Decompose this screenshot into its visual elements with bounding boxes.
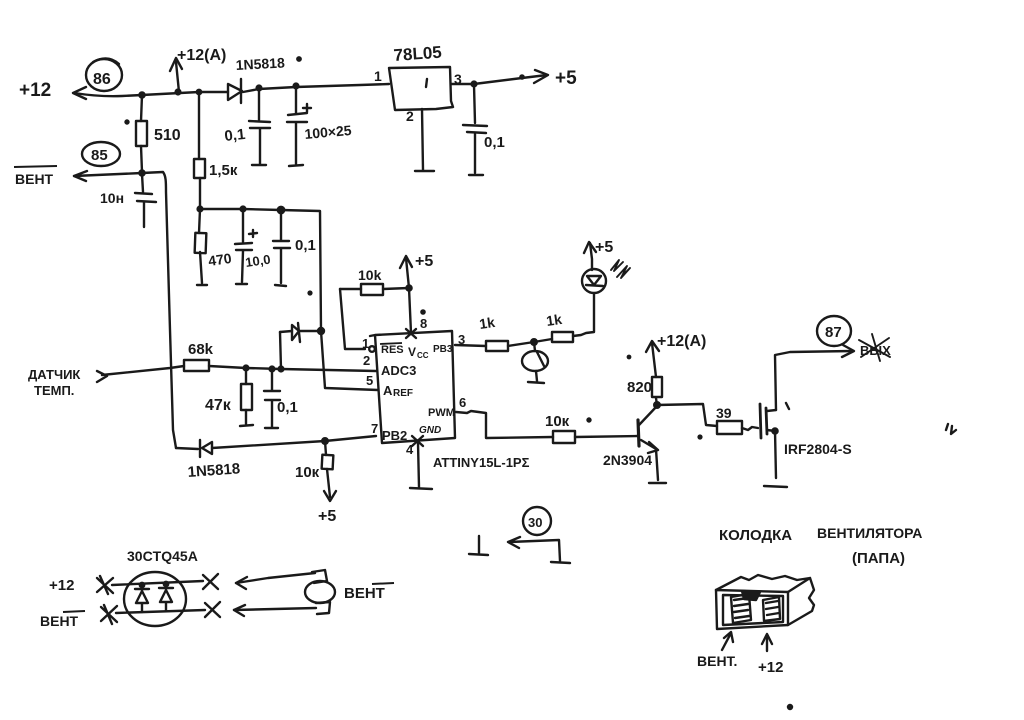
svg-text:+12(A): +12(A) [657, 333, 706, 350]
svg-text:87: 87 [825, 324, 842, 341]
svg-text:ВЕНТ: ВЕНТ [40, 613, 79, 629]
svg-text:1: 1 [362, 336, 369, 351]
svg-text:1,5к: 1,5к [209, 162, 238, 179]
svg-text:+12: +12 [49, 577, 74, 594]
svg-text:3: 3 [454, 71, 462, 87]
svg-text:2N3904: 2N3904 [603, 452, 652, 468]
svg-text:2: 2 [363, 353, 370, 368]
svg-text:6: 6 [459, 395, 466, 410]
svg-text:10н: 10н [100, 190, 124, 206]
svg-text:ВЫХ: ВЫХ [860, 343, 891, 358]
svg-text:470: 470 [207, 250, 233, 269]
svg-text:ADC3: ADC3 [381, 363, 416, 378]
svg-text:10к: 10к [545, 413, 570, 430]
svg-text:0,1: 0,1 [224, 126, 247, 145]
svg-text:4: 4 [406, 442, 414, 457]
svg-text:GND: GND [419, 425, 441, 436]
svg-text:ВЕНТИЛЯТОРА: ВЕНТИЛЯТОРА [817, 525, 922, 541]
svg-text:PWM: PWM [428, 407, 455, 419]
svg-text:+12(A): +12(A) [177, 47, 226, 64]
svg-text:ВЕНТ: ВЕНТ [344, 585, 385, 602]
svg-text:1N5818: 1N5818 [235, 54, 285, 73]
svg-text:78L05: 78L05 [393, 43, 442, 65]
svg-text:510: 510 [154, 127, 181, 144]
svg-text:7: 7 [371, 421, 378, 436]
svg-text:PB2: PB2 [382, 428, 407, 443]
svg-text:КОЛОДКА: КОЛОДКА [719, 527, 792, 544]
svg-text:47к: 47к [205, 397, 232, 414]
svg-text:3: 3 [458, 332, 465, 347]
svg-text:8: 8 [420, 316, 427, 331]
svg-text:+5: +5 [595, 239, 613, 256]
svg-text:(ПАПА): (ПАПА) [852, 550, 905, 567]
svg-text:CC: CC [417, 351, 429, 360]
svg-text:5: 5 [366, 373, 373, 388]
svg-text:+5: +5 [415, 253, 433, 270]
svg-text:ВЕНТ: ВЕНТ [15, 171, 54, 187]
svg-text:REF: REF [393, 388, 413, 399]
svg-text:10,0: 10,0 [244, 252, 271, 270]
svg-text:0,1: 0,1 [277, 399, 298, 416]
svg-text:10к: 10к [295, 464, 320, 481]
svg-text:ATTINY15L-1PΣ: ATTINY15L-1PΣ [433, 455, 530, 470]
svg-text:68k: 68k [188, 341, 214, 358]
svg-text:1k: 1k [545, 311, 563, 329]
svg-text:+12: +12 [758, 659, 783, 676]
svg-text:+12: +12 [19, 80, 51, 101]
svg-text:30CTQ45A: 30CTQ45A [127, 548, 198, 564]
svg-text:ВЕНТ.: ВЕНТ. [697, 653, 737, 669]
svg-text:IRF2804-S: IRF2804-S [784, 441, 852, 457]
svg-text:820: 820 [627, 379, 652, 396]
svg-text:0,1: 0,1 [484, 134, 505, 151]
svg-text:85: 85 [91, 147, 108, 164]
svg-text:1N5818: 1N5818 [187, 460, 241, 481]
svg-text:10k: 10k [358, 267, 382, 283]
svg-text:100×25: 100×25 [304, 122, 353, 142]
svg-text:ТЕМП.: ТЕМП. [34, 383, 74, 398]
svg-text:RES: RES [381, 344, 404, 356]
svg-text:2: 2 [406, 108, 414, 124]
svg-text:ДАТЧИК: ДАТЧИК [28, 367, 80, 382]
svg-text:30: 30 [528, 515, 542, 530]
svg-text:39: 39 [716, 405, 732, 421]
svg-text:86: 86 [93, 71, 111, 88]
svg-text:+5: +5 [555, 68, 577, 89]
svg-text:PB3: PB3 [433, 344, 453, 355]
svg-text:1: 1 [374, 68, 382, 84]
svg-text:A: A [383, 383, 393, 398]
svg-text:1k: 1k [478, 314, 496, 332]
svg-text:V: V [408, 345, 416, 359]
svg-text:+5: +5 [318, 508, 336, 525]
svg-text:0,1: 0,1 [295, 237, 316, 254]
